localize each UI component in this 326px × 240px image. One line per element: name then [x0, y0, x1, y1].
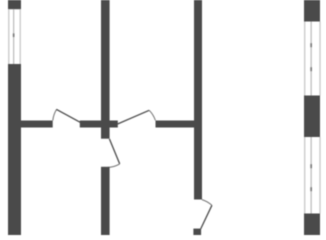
central interior wall A lower segment [101, 167, 110, 235]
right exterior wall top segment [304, 0, 320, 22]
door B leaf [118, 110, 150, 124]
door A swing arc [53, 110, 57, 121]
door D leaf [201, 205, 212, 229]
window W2 center glazing line [311, 22, 312, 96]
window W1 right frame line [20, 9, 21, 64]
right-center interior wall B bottom stub [193, 229, 201, 235]
left exterior wall upper segment [8, 0, 21, 9]
door D swing arc [202, 200, 212, 206]
window W1 center glazing line [13, 9, 14, 64]
window W1 left frame line [8, 9, 9, 64]
window W3 center glazing line [311, 137, 312, 214]
window W3 left frame line [304, 137, 305, 214]
window W2 center tick lower [310, 67, 312, 71]
left exterior wall lower segment [8, 64, 21, 235]
central interior wall A stub below cross [101, 128, 110, 139]
interior horizontal wall segment 3 [156, 121, 203, 128]
window W2 right frame line [319, 22, 320, 96]
right-center interior wall B upper segment [194, 0, 202, 200]
interior horizontal wall segment 2 [80, 121, 118, 128]
door C leaf [109, 139, 119, 164]
right exterior wall middle segment [304, 96, 320, 138]
central interior wall A upper segment [101, 0, 110, 121]
window W1 center tick [13, 33, 15, 37]
door B swing arc [149, 110, 155, 120]
window W3 center tick upper [310, 164, 312, 168]
door C swing arc [104, 164, 120, 168]
window W2 left frame line [304, 22, 305, 96]
door A leaf [56, 109, 80, 122]
window W3 right frame line [319, 137, 320, 214]
interior horizontal wall segment 1 (left stub) [21, 121, 53, 128]
right exterior wall bottom segment [304, 214, 320, 236]
window W2 center tick upper [310, 43, 312, 47]
window W3 center tick lower [310, 187, 312, 191]
